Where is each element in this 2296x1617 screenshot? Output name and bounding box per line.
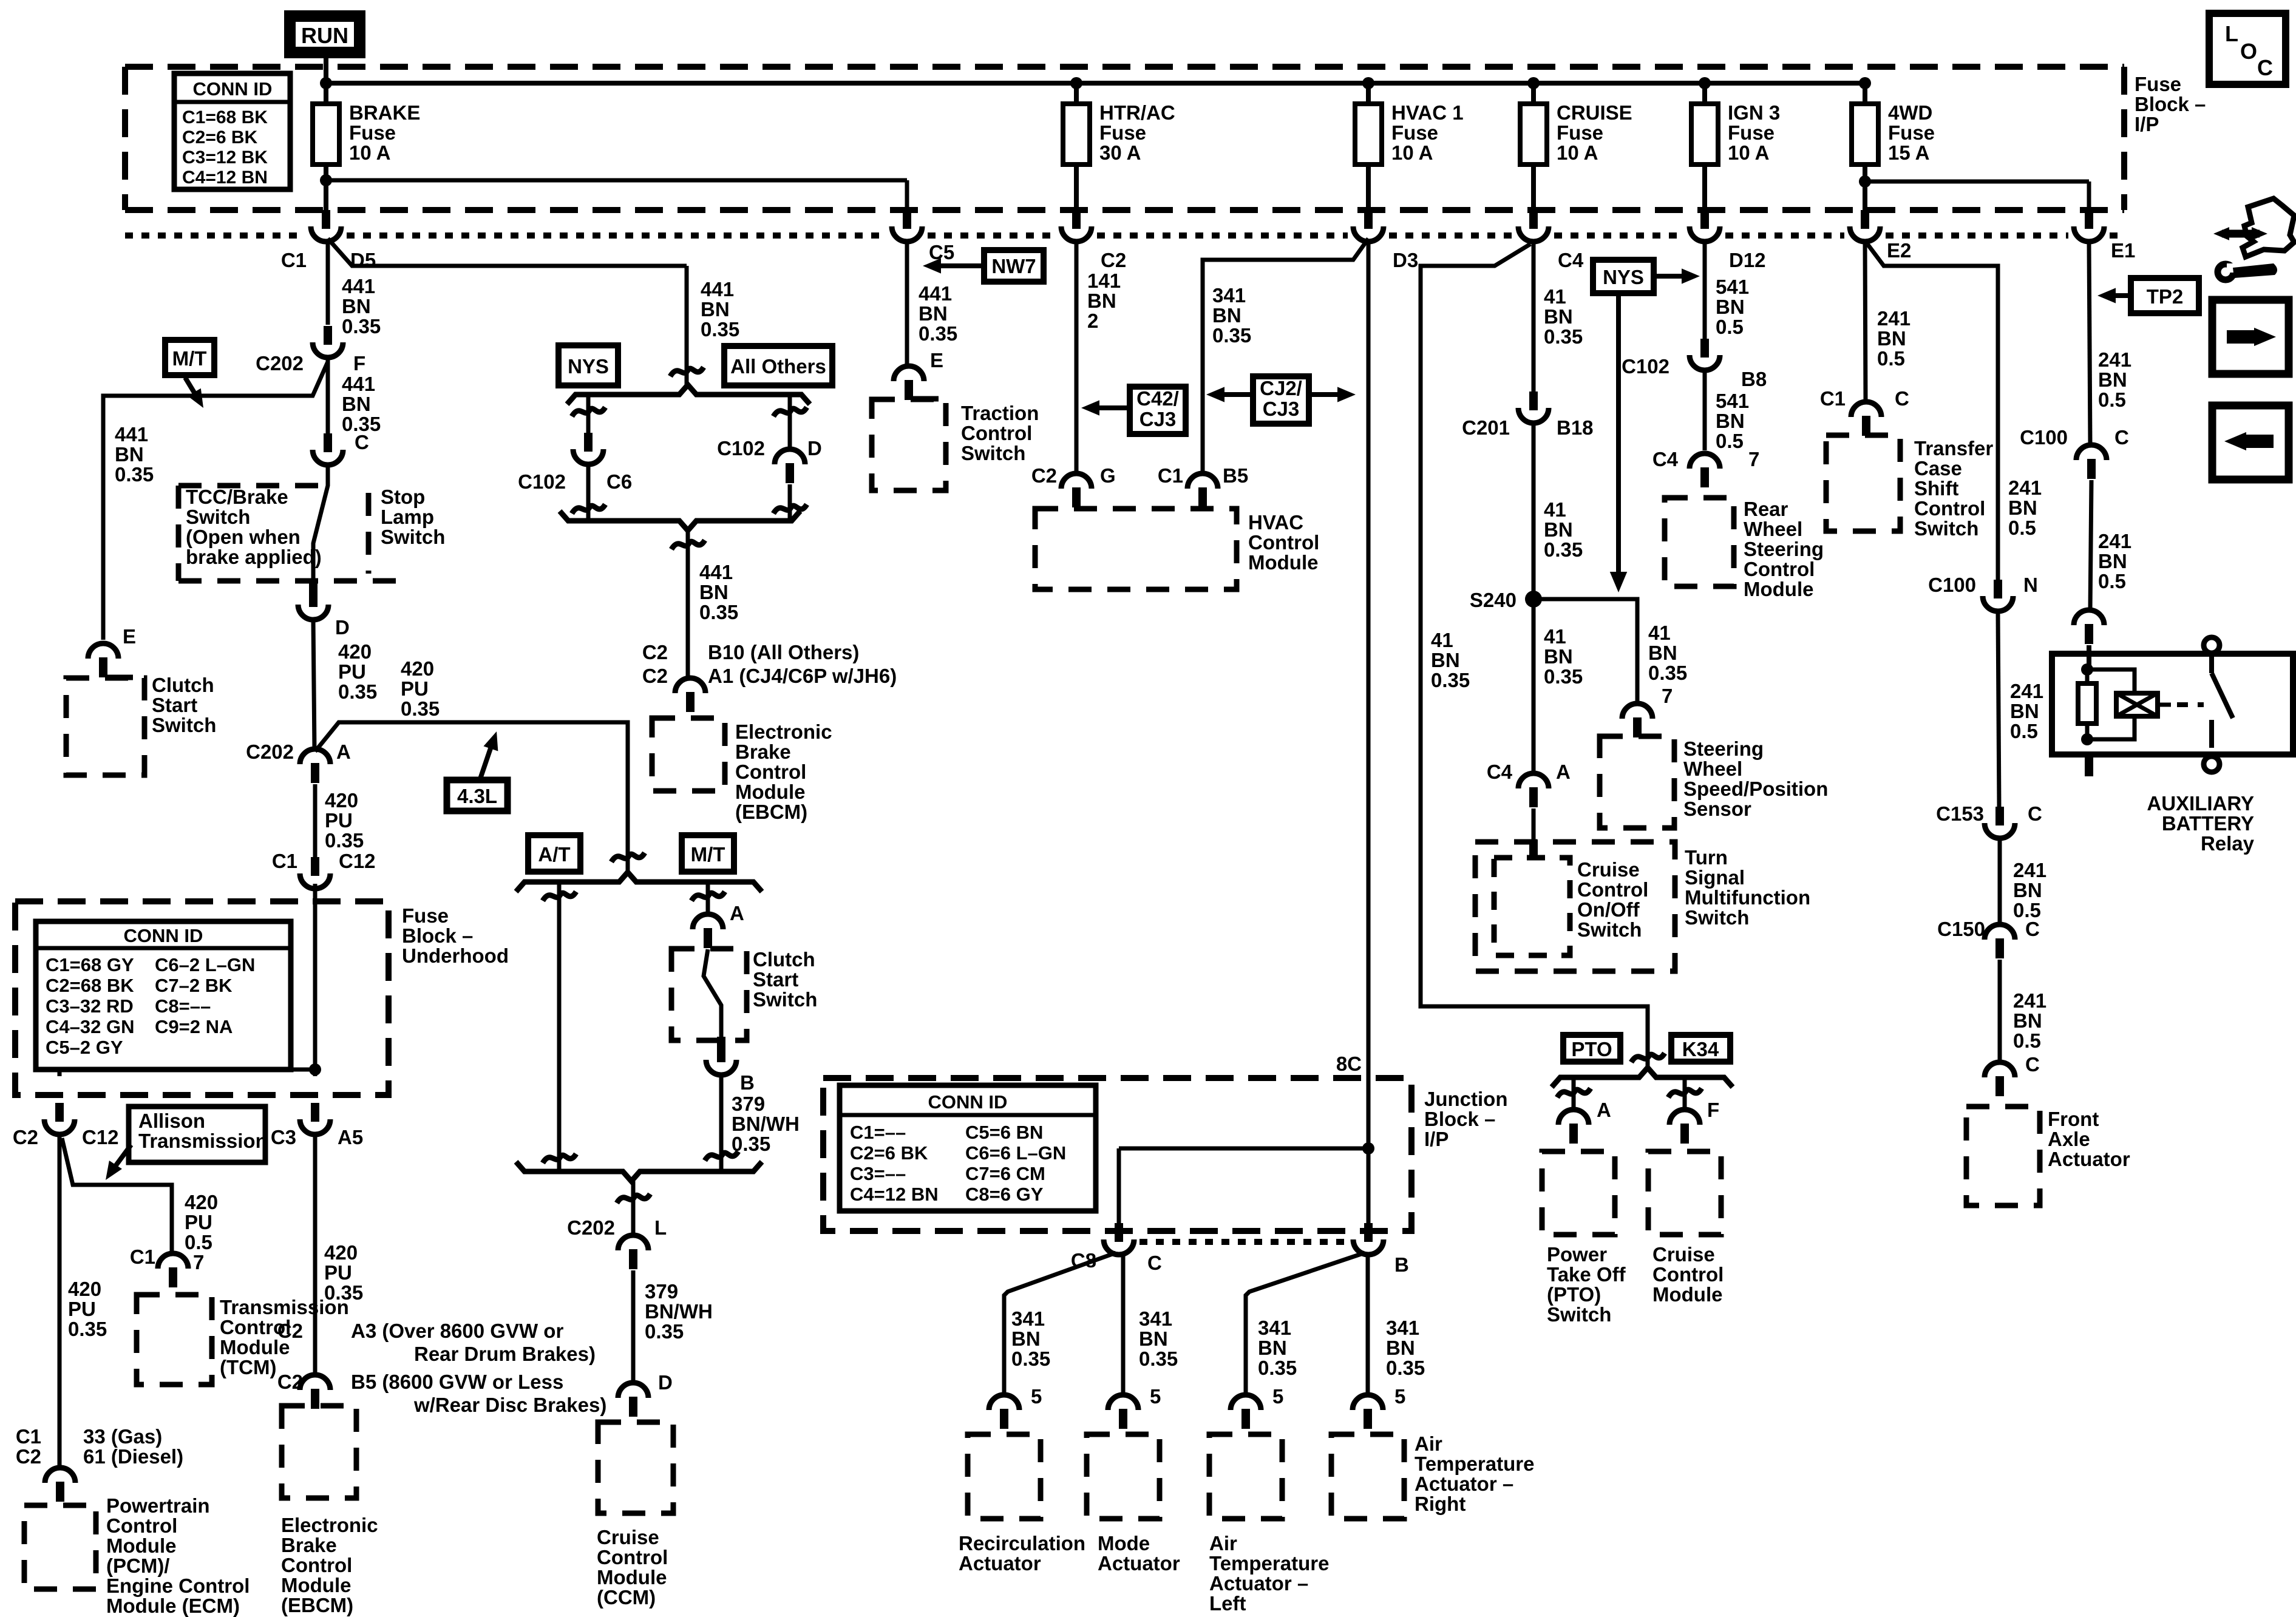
wire C4 A into on/off switch <box>1532 808 1536 841</box>
wire D5 branch to splice <box>328 239 687 266</box>
svg-text:C7–2 BK: C7–2 BK <box>155 975 233 996</box>
svg-text:341: 341 <box>1212 284 1246 307</box>
svg-text:(EBCM): (EBCM) <box>735 801 807 823</box>
wire K34 drop <box>1683 1077 1687 1110</box>
bus junction <box>1362 77 1374 89</box>
connector C201 B18 <box>1529 392 1538 410</box>
svg-text:BN: BN <box>1544 305 1573 328</box>
Air Temperature Actuator Right dashed box <box>1331 1434 1404 1519</box>
ignition bus wire <box>326 81 1865 86</box>
wire C153 to C150 <box>1998 840 2002 925</box>
svg-text:5: 5 <box>1272 1385 1283 1408</box>
svg-text:Rear Drum Brakes): Rear Drum Brakes) <box>414 1343 596 1365</box>
svg-text:BN: BN <box>2010 700 2039 722</box>
svg-text:C: C <box>2025 1053 2040 1076</box>
svg-text:TP2: TP2 <box>2147 285 2184 308</box>
svg-text:Fuse: Fuse <box>1099 121 1146 144</box>
svg-text:BN: BN <box>1431 649 1460 671</box>
svg-text:Electronic: Electronic <box>281 1514 378 1536</box>
svg-text:Brake: Brake <box>735 741 791 763</box>
svg-text:PU: PU <box>68 1298 96 1320</box>
junction block splice <box>1362 1142 1374 1154</box>
svg-text:Steering: Steering <box>1683 737 1764 760</box>
svg-text:0.35: 0.35 <box>1544 325 1583 348</box>
bus junction <box>1699 77 1711 89</box>
svg-text:C8=6 GY: C8=6 GY <box>965 1184 1044 1205</box>
svg-text:41: 41 <box>1544 625 1566 648</box>
svg-text:Cruise: Cruise <box>1652 1243 1715 1266</box>
svg-text:Transmission: Transmission <box>138 1130 268 1152</box>
svg-text:0.5: 0.5 <box>2098 570 2126 592</box>
svg-text:0.35: 0.35 <box>1212 324 1251 347</box>
squiggle All Others drop bottom <box>773 504 807 514</box>
svg-text:Control: Control <box>1577 878 1648 901</box>
svg-text:441: 441 <box>115 423 148 446</box>
svg-text:B10 (All Others): B10 (All Others) <box>708 641 859 663</box>
svg-text:61 (Diesel): 61 (Diesel) <box>83 1445 183 1468</box>
svg-text:C2=6 BK: C2=6 BK <box>850 1142 928 1164</box>
svg-text:CONN ID: CONN ID <box>124 925 203 946</box>
svg-text:41: 41 <box>1648 622 1671 644</box>
diagnostic icon double arrow <box>2222 230 2260 238</box>
svg-text:C5=6 BN: C5=6 BN <box>965 1122 1043 1143</box>
svg-text:E1: E1 <box>2111 239 2135 262</box>
navigation box arrow right <box>2212 300 2289 374</box>
svg-text:C102: C102 <box>1622 355 1669 378</box>
svg-text:C: C <box>355 431 369 453</box>
svg-text:C: C <box>2257 55 2273 80</box>
svg-text:Left: Left <box>1209 1592 1246 1615</box>
CJ2/CJ3 reference box <box>1253 376 1309 424</box>
svg-text:7: 7 <box>1748 448 1759 470</box>
bus junction <box>1527 77 1540 89</box>
svg-text:Module: Module <box>1744 578 1813 600</box>
svg-text:Take Off: Take Off <box>1547 1263 1626 1286</box>
squiggle A/T drop bottom <box>543 1154 576 1163</box>
svg-text:Cruise: Cruise <box>597 1526 659 1548</box>
svg-text:C3=––: C3=–– <box>850 1163 906 1184</box>
junction below 4WD fuse <box>1859 175 1871 188</box>
wire C4 branch to on/off switch feed <box>1421 244 1648 1069</box>
wire brace to C202 L <box>631 1181 636 1237</box>
svg-text:5: 5 <box>1150 1385 1161 1408</box>
svg-text:2: 2 <box>1087 310 1098 332</box>
svg-text:BN: BN <box>1139 1327 1168 1350</box>
svg-text:D3: D3 <box>1393 249 1418 271</box>
Clutch Start Switch dashed box <box>66 678 144 775</box>
svg-text:PU: PU <box>338 660 366 683</box>
wire branch C202 A to A/T M/T splice <box>315 722 628 873</box>
svg-text:10 A: 10 A <box>349 141 390 164</box>
svg-text:C3=12 BK: C3=12 BK <box>182 147 268 168</box>
wire 4WD to E1 branch <box>1865 180 2089 184</box>
svg-text:A: A <box>1597 1099 1611 1121</box>
svg-text:Multifunction: Multifunction <box>1685 886 1810 909</box>
svg-text:Switch: Switch <box>186 506 250 528</box>
svg-text:Module: Module <box>1652 1283 1722 1306</box>
wire splice to C8 <box>1119 1147 1368 1151</box>
svg-text:C6–2 L–GN: C6–2 L–GN <box>155 954 255 975</box>
wire C100 N to C153 <box>1998 613 1999 807</box>
svg-text:0.35: 0.35 <box>1011 1347 1050 1370</box>
svg-text:Module: Module <box>106 1534 176 1557</box>
svg-text:0.35: 0.35 <box>645 1320 684 1343</box>
svg-text:420: 420 <box>68 1278 101 1300</box>
svg-text:BN: BN <box>1648 642 1677 664</box>
svg-text:C2: C2 <box>13 1126 38 1148</box>
svg-text:(CCM): (CCM) <box>597 1586 656 1609</box>
svg-text:379: 379 <box>645 1280 678 1303</box>
wire E2 to C1 C <box>1865 243 1866 402</box>
svg-text:541: 541 <box>1716 390 1749 412</box>
svg-text:B8: B8 <box>1741 368 1767 390</box>
svg-text:E: E <box>930 349 943 371</box>
svg-text:5: 5 <box>1394 1385 1405 1408</box>
svg-text:D: D <box>658 1371 673 1394</box>
Power Take Off Switch dashed box <box>1542 1151 1615 1235</box>
svg-text:Clutch: Clutch <box>753 948 815 971</box>
svg-text:C2: C2 <box>642 641 668 663</box>
connector C stop lamp switch <box>324 433 332 452</box>
svg-text:420: 420 <box>338 640 372 663</box>
svg-text:541: 541 <box>1716 276 1749 298</box>
svg-text:(EBCM): (EBCM) <box>281 1594 353 1616</box>
split brace top <box>567 385 810 404</box>
svg-text:NYS: NYS <box>1603 266 1644 288</box>
svg-text:Underhood: Underhood <box>402 944 509 967</box>
svg-text:241: 241 <box>1877 307 1911 330</box>
svg-text:341: 341 <box>1258 1317 1291 1339</box>
navigation box arrow left <box>2212 405 2289 480</box>
svg-text:BN: BN <box>2008 497 2037 519</box>
svg-text:Fuse: Fuse <box>1728 121 1775 144</box>
svg-text:BN: BN <box>1544 518 1573 541</box>
Clutch Start Switch 2 dashed box <box>671 949 747 1040</box>
svg-text:HTR/AC: HTR/AC <box>1099 101 1175 124</box>
connector C3 A5 underhood out <box>311 1103 319 1122</box>
svg-text:Clutch: Clutch <box>152 674 214 696</box>
svg-text:BN: BN <box>342 295 371 317</box>
svg-text:B18: B18 <box>1557 416 1594 439</box>
svg-text:Control: Control <box>220 1316 291 1338</box>
svg-text:C4: C4 <box>1652 448 1679 470</box>
fuse 4WD 15A <box>1863 83 1867 104</box>
svg-text:Switch: Switch <box>1685 906 1749 929</box>
svg-text:BN: BN <box>1011 1327 1041 1350</box>
wire C202 F to stop lamp switch C <box>326 359 330 433</box>
svg-text:BN: BN <box>1212 304 1241 327</box>
connector D3 at fuse block I/P <box>1364 210 1373 229</box>
squiggle split feed <box>670 367 704 376</box>
connector C202 A <box>300 749 330 764</box>
connector C2 at fuse block I/P <box>1072 210 1081 229</box>
svg-text:Sensor: Sensor <box>1683 798 1751 820</box>
svg-text:Air: Air <box>1415 1432 1442 1455</box>
squiggle PTO drop <box>1557 1088 1591 1097</box>
svg-text:C2: C2 <box>1031 464 1057 487</box>
svg-text:BRAKE: BRAKE <box>349 101 420 124</box>
svg-text:Control: Control <box>281 1554 352 1576</box>
svg-text:C: C <box>1895 387 1909 410</box>
svg-text:0.35: 0.35 <box>1258 1357 1297 1379</box>
svg-text:A: A <box>730 902 744 924</box>
svg-text:241: 241 <box>2010 680 2043 702</box>
wire A/T drop <box>557 882 562 1171</box>
svg-text:Wheel: Wheel <box>1744 518 1802 540</box>
svg-text:Wheel: Wheel <box>1683 758 1742 780</box>
NYS arrow to D12 <box>1654 274 1690 279</box>
squiggle C202 L feed <box>617 1194 650 1203</box>
svg-text:CRUISE: CRUISE <box>1557 101 1632 124</box>
svg-text:0.35: 0.35 <box>338 680 377 703</box>
squiggle NYS drop bottom <box>572 504 605 514</box>
svg-text:HVAC 1: HVAC 1 <box>1391 101 1464 124</box>
clutch start switch 2 contact <box>704 949 721 1037</box>
svg-text:Actuator: Actuator <box>2048 1148 2130 1170</box>
svg-text:0.35: 0.35 <box>1648 662 1687 684</box>
svg-text:I/P: I/P <box>1424 1128 1449 1150</box>
svg-text:10 A: 10 A <box>1728 141 1769 164</box>
svg-text:30 A: 30 A <box>1099 141 1141 164</box>
connector C4 at fuse block I/P <box>1529 210 1538 229</box>
svg-text:Powertrain: Powertrain <box>106 1494 210 1517</box>
svg-text:5: 5 <box>1031 1385 1042 1408</box>
svg-text:BN: BN <box>701 298 730 320</box>
svg-text:PU: PU <box>401 677 429 700</box>
svg-text:0.35: 0.35 <box>401 697 440 720</box>
svg-text:L: L <box>654 1216 667 1239</box>
fuse IGN 3 10A <box>1702 83 1707 104</box>
svg-text:BN: BN <box>2098 368 2127 391</box>
wire All Others drop lower <box>788 484 792 520</box>
svg-text:E2: E2 <box>1887 239 1911 262</box>
svg-text:C7=6 CM: C7=6 CM <box>965 1163 1045 1184</box>
diagnostic icon mitten outline <box>2243 198 2294 257</box>
svg-text:C1: C1 <box>272 850 297 872</box>
relay coil branch <box>2087 670 2135 693</box>
svg-text:420: 420 <box>185 1191 218 1213</box>
squiggle EBCM feed <box>671 540 705 549</box>
svg-text:C202: C202 <box>246 741 294 763</box>
svg-text:BN: BN <box>1877 327 1906 350</box>
connector C1 C2 PCM <box>45 1468 75 1483</box>
svg-text:Switch: Switch <box>381 526 445 548</box>
wire A5 to EBCM <box>313 1136 318 1373</box>
svg-text:441: 441 <box>342 373 375 395</box>
svg-text:PU: PU <box>324 1261 352 1284</box>
CONN ID table (fuse block I/P) <box>174 73 290 189</box>
svg-text:TCC/Brake: TCC/Brake <box>186 486 288 508</box>
svg-text:241: 241 <box>2098 530 2131 552</box>
svg-text:Junction: Junction <box>1424 1088 1508 1110</box>
relay resistor lower wire <box>2085 724 2090 739</box>
svg-text:(TCM): (TCM) <box>220 1356 276 1378</box>
svg-text:Relay: Relay <box>2201 832 2255 855</box>
svg-text:Block –: Block – <box>2135 93 2206 115</box>
svg-text:C12: C12 <box>82 1126 119 1148</box>
svg-text:RUN: RUN <box>301 23 348 48</box>
svg-text:C1: C1 <box>16 1425 41 1448</box>
svg-text:341: 341 <box>1139 1307 1172 1330</box>
relay output stub <box>2085 754 2093 776</box>
connector C1 C12 underhood <box>311 857 319 876</box>
svg-text:C2=6 BK: C2=6 BK <box>182 127 258 147</box>
squiggle M/T drop bottom <box>705 1151 738 1161</box>
svg-text:w/Rear Disc Brakes): w/Rear Disc Brakes) <box>413 1394 606 1416</box>
svg-text:C6: C6 <box>606 470 632 493</box>
Rear Wheel Steering Control Module dashed box <box>1665 498 1734 586</box>
NYS condition box <box>559 345 618 385</box>
svg-text:C102: C102 <box>518 470 566 493</box>
wire BRAKE to C5 branch <box>326 178 907 183</box>
svg-text:341: 341 <box>1386 1317 1419 1339</box>
svg-text:C3–32 RD: C3–32 RD <box>46 995 134 1017</box>
svg-text:BN/WH: BN/WH <box>645 1300 713 1323</box>
svg-text:Transmission: Transmission <box>220 1296 349 1318</box>
PTO condition box <box>1563 1035 1620 1062</box>
junction block connector dotted line <box>1140 1239 1348 1245</box>
svg-text:Allison: Allison <box>138 1110 205 1132</box>
Cruise Control Module dashed box 2 <box>1648 1151 1721 1235</box>
splice S240 <box>1525 591 1542 608</box>
svg-text:C: C <box>2025 918 2040 940</box>
svg-text:Control: Control <box>735 761 806 783</box>
svg-text:C42/: C42/ <box>1136 387 1179 410</box>
wire C150 to front axle <box>1998 960 2002 1063</box>
svg-text:0.5: 0.5 <box>2098 388 2126 411</box>
svg-text:0.35: 0.35 <box>701 318 739 341</box>
wire All Others drop <box>788 395 792 451</box>
svg-text:Module: Module <box>597 1566 667 1588</box>
svg-text:420: 420 <box>324 1241 358 1264</box>
svg-text:E: E <box>123 625 136 648</box>
connector C153 C <box>1995 807 2004 825</box>
wire B to brace <box>719 1076 724 1171</box>
svg-text:8C: 8C <box>1336 1053 1362 1075</box>
svg-text:0.5: 0.5 <box>185 1231 212 1253</box>
fuse HVAC 1 10A <box>1366 83 1371 104</box>
svg-text:Module: Module <box>220 1336 290 1358</box>
connector C202 F <box>324 326 332 345</box>
wire C202 A to C1 <box>313 784 318 857</box>
wire NYS drop <box>586 395 591 433</box>
svg-text:0.5: 0.5 <box>1716 430 1744 452</box>
wire C100 C to relay <box>2090 480 2091 611</box>
squiggle NYS drop top <box>572 407 605 416</box>
svg-text:0.5: 0.5 <box>2008 517 2036 539</box>
svg-text:C1=68 GY: C1=68 GY <box>46 954 134 975</box>
svg-text:C1=68 BK: C1=68 BK <box>182 107 268 127</box>
wire C2 C12 to PCM <box>58 1136 62 1468</box>
svg-text:Start: Start <box>753 968 798 991</box>
All Others condition box <box>724 346 832 385</box>
svg-text:0.35: 0.35 <box>1386 1357 1425 1379</box>
squiggle A/T drop top <box>543 892 576 901</box>
svg-text:Control: Control <box>106 1514 177 1537</box>
svg-text:A/T: A/T <box>538 843 570 866</box>
svg-text:Control: Control <box>1744 558 1815 580</box>
Electronic Brake Control Module dashed box <box>652 718 725 791</box>
Transfer Case Shift Control Switch dashed box <box>1826 435 1900 531</box>
squiggle PTO feed <box>1631 1053 1665 1062</box>
svg-text:0.35: 0.35 <box>325 829 364 852</box>
svg-text:C102: C102 <box>717 437 765 459</box>
wire S240 to steering sensor <box>1533 599 1637 704</box>
svg-text:BN: BN <box>1087 290 1116 312</box>
svg-text:BN: BN <box>2013 1009 2042 1032</box>
svg-text:PU: PU <box>185 1211 212 1233</box>
svg-text:M/T: M/T <box>691 843 725 866</box>
svg-text:All Others: All Others <box>730 355 826 378</box>
NW7 reference box with arrow <box>984 250 1044 282</box>
svg-text:Module: Module <box>1248 551 1318 574</box>
svg-text:Transfer: Transfer <box>1914 437 1993 459</box>
svg-text:D12: D12 <box>1729 249 1766 271</box>
svg-text:441: 441 <box>701 278 734 300</box>
svg-text:C201: C201 <box>1462 416 1510 439</box>
svg-text:341: 341 <box>1011 1307 1045 1330</box>
connector C102 D <box>775 449 805 464</box>
svg-text:C100: C100 <box>1928 574 1976 596</box>
Recirculation Actuator dashed box <box>968 1434 1041 1519</box>
relay coil <box>2116 693 2158 716</box>
svg-text:C153: C153 <box>1936 802 1984 825</box>
svg-text:Right: Right <box>1415 1493 1466 1515</box>
svg-text:G: G <box>1100 464 1116 487</box>
wire C202 F branch to clutch start switch <box>103 362 328 640</box>
Turn Signal Multifunction Switch dashed box <box>1475 842 1675 971</box>
svg-text:(PCM)/: (PCM)/ <box>106 1554 169 1577</box>
relay splice top <box>2081 663 2093 676</box>
wire C2 to HVAC control module <box>1075 243 1079 474</box>
svg-text:I/P: I/P <box>2135 113 2159 135</box>
svg-text:Air: Air <box>1209 1532 1237 1554</box>
svg-text:K34: K34 <box>1682 1038 1719 1060</box>
svg-text:BN: BN <box>699 581 729 603</box>
svg-text:41: 41 <box>1544 498 1566 521</box>
wire D3 branch to C1 B5 <box>1203 239 1368 474</box>
svg-text:10 A: 10 A <box>1557 141 1598 164</box>
relay coil to switch link <box>2158 703 2171 707</box>
svg-text:C1=––: C1=–– <box>850 1122 906 1143</box>
wire split to EBCM <box>686 529 690 679</box>
svg-text:A5: A5 <box>338 1126 363 1148</box>
bus junction <box>320 77 332 89</box>
connector D5 at fuse block I/P <box>322 210 330 229</box>
svg-text:A: A <box>1556 761 1571 783</box>
A/T M/T brace bottom <box>516 1162 762 1181</box>
svg-text:A: A <box>336 741 351 763</box>
4.3L arrow <box>480 745 492 779</box>
svg-text:BN: BN <box>1386 1337 1415 1359</box>
svg-text:0.5: 0.5 <box>1877 347 1905 370</box>
split brace bottom <box>560 511 800 531</box>
svg-text:Switch: Switch <box>152 714 216 736</box>
M/T condition box 2 <box>682 835 734 872</box>
svg-text:C1: C1 <box>1158 464 1183 487</box>
svg-text:0.35: 0.35 <box>1139 1347 1178 1370</box>
squiggle K34 drop <box>1668 1088 1702 1097</box>
svg-text:0.35: 0.35 <box>115 463 154 486</box>
Stop Lamp Switch bracket <box>366 493 372 574</box>
Cruise Control On/Off Switch dashed box <box>1494 858 1570 955</box>
svg-text:C2: C2 <box>642 665 668 687</box>
squiggle All Others drop top <box>773 407 807 416</box>
K34 condition box <box>1671 1035 1730 1062</box>
svg-text:0.35: 0.35 <box>699 601 738 623</box>
svg-text:B: B <box>740 1071 755 1094</box>
connector C5 at fuse block I/P <box>903 210 911 229</box>
